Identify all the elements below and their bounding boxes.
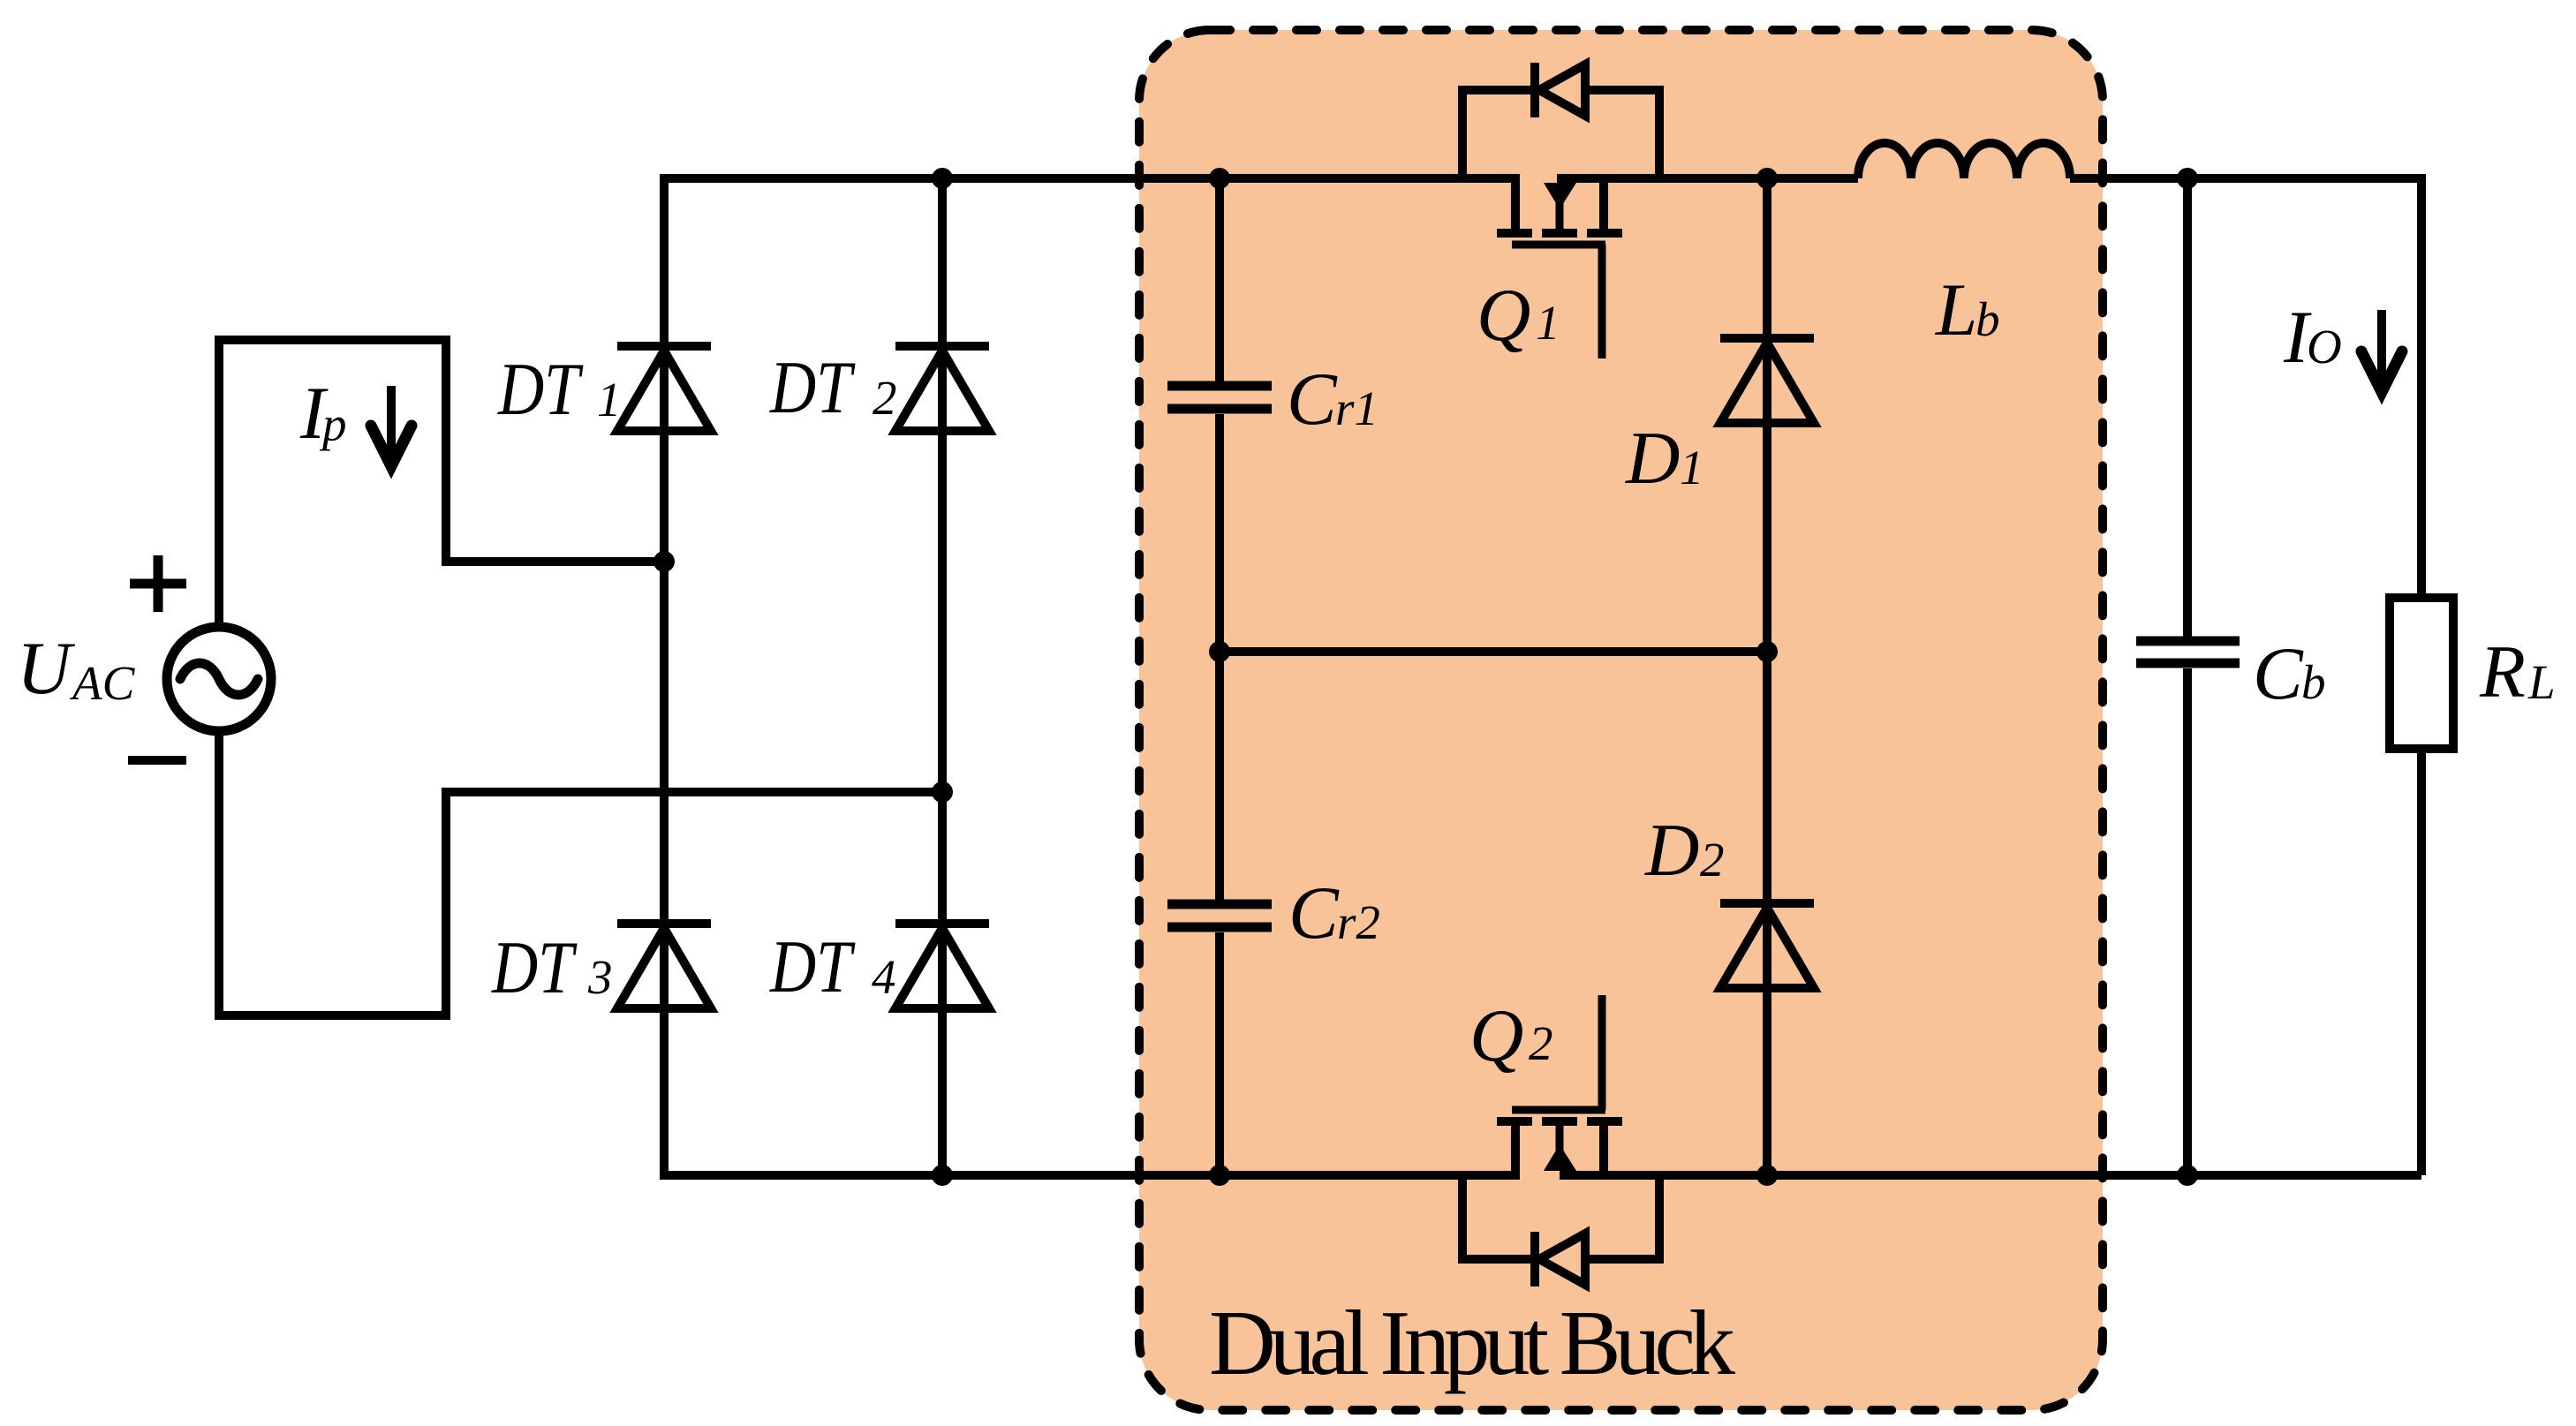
dual input buck dashed border bbox=[1139, 30, 2103, 1410]
label DT4 bbox=[769, 926, 856, 1009]
svg-text:D: D bbox=[1644, 809, 1699, 892]
capacitor Cb bbox=[2136, 641, 2240, 663]
Q1 channel ticks bbox=[1497, 229, 1622, 238]
diode DT4 bbox=[895, 924, 989, 1008]
node dot middle Cr bbox=[1209, 641, 1230, 662]
svg-text:1: 1 bbox=[597, 373, 622, 426]
wire middle node bbox=[1220, 647, 1767, 656]
svg-text:r2: r2 bbox=[1337, 895, 1380, 949]
svg-text:DT: DT bbox=[769, 347, 856, 430]
AC source sine symbol bbox=[180, 663, 258, 695]
node dot DT2 column bbox=[932, 781, 953, 803]
svg-text:2: 2 bbox=[1529, 1016, 1553, 1070]
label DT2 bbox=[769, 347, 856, 430]
Q1 source stub bbox=[1599, 178, 1608, 229]
wire AC source bottom loop bbox=[219, 729, 942, 1015]
dual input buck region fill bbox=[1139, 30, 2103, 1410]
wire Cr column lower bbox=[1215, 932, 1224, 1175]
transistor Q2 MOSFET bbox=[1497, 995, 1622, 1175]
svg-text:Dual Input Buck: Dual Input Buck bbox=[1209, 1291, 1736, 1394]
svg-text:R: R bbox=[2479, 630, 2526, 713]
capacitor Cr2 bbox=[1167, 904, 1272, 927]
Q2 drain stub bbox=[1511, 1126, 1520, 1175]
node dot bottom rail Cr2 bbox=[1209, 1165, 1230, 1186]
transistor Q1 MOSFET bbox=[1497, 178, 1622, 358]
current Ip arrow bbox=[387, 386, 396, 455]
Q2 body arrow bbox=[1544, 1144, 1576, 1171]
label DT3 bbox=[491, 927, 578, 1010]
diode D2 bbox=[1720, 903, 1814, 988]
node dot bottom rail Cb bbox=[2177, 1165, 2198, 1186]
svg-text:L: L bbox=[1935, 268, 1977, 351]
svg-text:b: b bbox=[2301, 655, 2326, 709]
AC source U_AC circle bbox=[167, 627, 271, 731]
svg-text:C: C bbox=[1287, 358, 1338, 441]
node dot top rail D1 bbox=[1756, 168, 1778, 189]
wire RL bottom lead bbox=[2417, 749, 2426, 1175]
Q2 body diode triangle bbox=[1539, 1234, 1585, 1285]
wire bottom rail right bbox=[1560, 1171, 2421, 1180]
node dot top rail DT2 bbox=[932, 168, 953, 189]
svg-text:3: 3 bbox=[587, 950, 613, 1004]
svg-text:AC: AC bbox=[69, 656, 136, 710]
minus sign bbox=[128, 756, 186, 765]
svg-text:Q: Q bbox=[1477, 274, 1530, 357]
svg-text:r1: r1 bbox=[1335, 381, 1379, 435]
svg-text:2: 2 bbox=[1700, 833, 1725, 887]
wire AC source top loop bbox=[219, 340, 664, 629]
node dot DT1 column bbox=[653, 551, 675, 572]
Q2 body diode loop bbox=[1462, 1175, 1659, 1286]
svg-text:C: C bbox=[2253, 632, 2304, 715]
wire Cb column upper bbox=[2183, 178, 2192, 637]
node dot middle D bbox=[1756, 641, 1778, 662]
plus sign bbox=[130, 555, 186, 612]
svg-text:2: 2 bbox=[873, 371, 897, 425]
wire D1/D2 column bbox=[1763, 178, 1771, 1175]
Q1 body arrow bbox=[1544, 183, 1576, 209]
svg-text:1: 1 bbox=[1680, 441, 1704, 494]
Q1 gate bar bbox=[1512, 241, 1605, 249]
svg-text:1: 1 bbox=[1536, 296, 1560, 350]
current Io arrow bbox=[2377, 310, 2386, 381]
Q1 body diode loop bbox=[1462, 63, 1659, 178]
svg-text:p: p bbox=[319, 397, 347, 451]
svg-text:O: O bbox=[2307, 320, 2342, 373]
wire Cb column lower bbox=[2183, 668, 2192, 1175]
svg-text:D: D bbox=[1625, 417, 1680, 500]
Q2 body diode cathode bar bbox=[1530, 1232, 1539, 1286]
svg-text:Q: Q bbox=[1469, 994, 1523, 1077]
Q1 drain stub bbox=[1511, 178, 1520, 229]
svg-text:b: b bbox=[1975, 292, 2000, 346]
wire top rail Q1 to inductor bbox=[1557, 174, 1858, 183]
wire Cr column upper bbox=[1215, 178, 1224, 381]
Q1 gate lead bbox=[1598, 245, 1606, 358]
wire Cr column middle bbox=[1215, 414, 1224, 900]
node dot top rail Cb bbox=[2177, 168, 2198, 189]
wire left bridge frame: top rail left, DT1/DT3 column, bottom rail left bbox=[664, 178, 1520, 1175]
Q2 gate bar bbox=[1512, 1106, 1605, 1114]
Q1 body diode triangle bbox=[1539, 64, 1585, 116]
resistor RL bbox=[2390, 598, 2453, 749]
inductor Lb bbox=[1858, 143, 2070, 178]
label DT1 bbox=[497, 349, 584, 432]
diode D1 bbox=[1720, 338, 1814, 423]
svg-text:4: 4 bbox=[872, 950, 896, 1004]
Q2 channel ticks bbox=[1497, 1117, 1622, 1126]
svg-text:L: L bbox=[2527, 655, 2556, 709]
svg-text:DT: DT bbox=[497, 349, 584, 432]
svg-text:DT: DT bbox=[769, 926, 856, 1009]
diode DT1 bbox=[617, 346, 711, 431]
diode DT2 bbox=[895, 346, 989, 431]
Q2 gate lead bbox=[1598, 995, 1606, 1110]
Q1 body diode cathode bar bbox=[1530, 63, 1539, 117]
svg-text:U: U bbox=[17, 627, 75, 710]
node dot top rail Cr1 bbox=[1209, 168, 1230, 189]
node dot bottom rail D2 bbox=[1756, 1165, 1778, 1186]
diode DT3 bbox=[617, 924, 711, 1008]
wire DT2/DT4 column bbox=[938, 178, 947, 1175]
Q2 source stub bbox=[1599, 1126, 1608, 1175]
svg-text:DT: DT bbox=[491, 927, 578, 1010]
wire top rail inductor to RL column bbox=[2070, 178, 2421, 598]
node dot bottom rail DT4 bbox=[932, 1165, 953, 1186]
capacitor Cr1 bbox=[1167, 386, 1272, 409]
svg-text:C: C bbox=[1288, 871, 1340, 954]
